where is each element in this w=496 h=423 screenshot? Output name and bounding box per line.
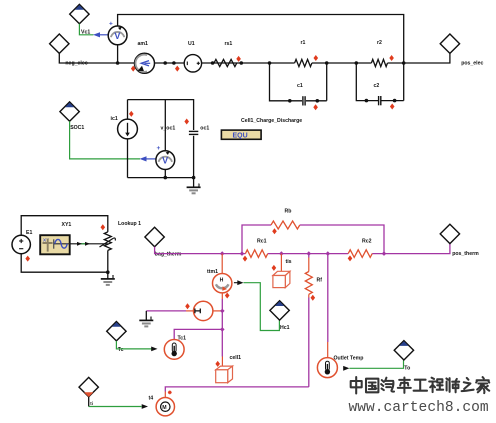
ground (187, 178, 201, 194)
wire (343, 360, 403, 370)
svg-text:U1: U1 (188, 41, 195, 47)
wire (312, 54, 450, 64)
pin marker (313, 104, 318, 110)
heat source ttm1 (207, 269, 232, 293)
wire (140, 156, 157, 161)
connector bag_therm (145, 227, 182, 257)
junction (163, 61, 175, 65)
svg-text:Outlet Temp: Outlet Temp (334, 355, 364, 361)
svg-text:pos_elec: pos_elec (461, 60, 483, 66)
sensor t4 (149, 395, 175, 416)
thermometer Tc1 (164, 336, 186, 360)
wire (70, 242, 108, 246)
resistor Rf (305, 254, 322, 298)
svg-text:r2: r2 (377, 40, 382, 46)
svg-text:oc1: oc1 (200, 125, 209, 131)
ground (101, 272, 115, 285)
wire (93, 32, 108, 37)
wire (70, 121, 140, 159)
svg-text:Tc: Tc (118, 347, 124, 353)
capacitor c2 (356, 63, 403, 105)
wire (174, 329, 222, 339)
voltmeter v_oc1 (156, 125, 175, 169)
watermark 中国汽车工程师之家 (351, 377, 490, 394)
heat cube cell1 (216, 355, 241, 383)
wire (327, 254, 329, 358)
connector Tc (107, 322, 126, 353)
wire (221, 293, 223, 367)
capacitor c1 (270, 63, 327, 106)
svg-text:To: To (404, 366, 410, 372)
resistor r2 (371, 40, 387, 67)
wire (79, 24, 93, 35)
wire SOC block (128, 100, 194, 178)
connector SOC1 (60, 102, 85, 131)
wire (280, 254, 282, 272)
svg-text:rs1: rs1 (225, 41, 233, 47)
pin marker (175, 66, 180, 72)
connector neg_elec (50, 34, 88, 66)
svg-text:Rc2: Rc2 (362, 238, 372, 244)
svg-text:+: + (157, 145, 161, 152)
svg-text:M: M (162, 405, 166, 411)
thermometer Outlet Temp (317, 355, 363, 377)
junction (220, 309, 225, 332)
svg-text:bag_therm: bag_therm (155, 251, 182, 257)
svg-text:XY1: XY1 (62, 222, 72, 228)
junction (220, 251, 386, 256)
connector pos_therm (440, 224, 479, 257)
pin marker (236, 56, 241, 62)
svg-text:v_oc1: v_oc1 (161, 125, 176, 131)
svg-text:Tc1: Tc1 (178, 336, 187, 342)
EQU block (221, 130, 261, 140)
connector Vc1 (70, 4, 91, 35)
pin marker (243, 256, 248, 262)
wire (221, 254, 223, 274)
svg-text:www.cartech8.com: www.cartech8.com (349, 400, 489, 416)
wire (244, 283, 280, 331)
resistor Rc2 (348, 238, 372, 257)
junction (268, 61, 329, 65)
voltmeter V1 (108, 21, 127, 45)
pin marker (272, 228, 277, 234)
svg-text:c1: c1 (297, 83, 303, 89)
wire (59, 53, 294, 63)
wire (116, 341, 157, 351)
pin marker (215, 361, 220, 367)
connector Hc1 (270, 301, 290, 332)
potentiometer Lookup 1 (100, 221, 142, 251)
svg-text:+: + (109, 21, 113, 28)
svg-text:ttm1: ttm1 (207, 269, 218, 275)
wire (146, 310, 222, 312)
svg-text:Lookup 1: Lookup 1 (118, 221, 141, 227)
svg-text:Hc1: Hc1 (280, 325, 290, 331)
resistor Rb (271, 209, 300, 230)
pin marker (185, 303, 190, 309)
pin marker (311, 295, 316, 301)
svg-text:Rc1: Rc1 (257, 238, 267, 244)
pin marker (314, 55, 319, 61)
pin marker (168, 391, 172, 395)
svg-text:am1: am1 (138, 41, 148, 47)
wire XY block (21, 216, 108, 273)
svg-text:tis: tis (286, 259, 292, 265)
junction (365, 99, 397, 103)
junction (288, 99, 319, 103)
junction (355, 61, 406, 65)
svg-text:E1: E1 (26, 230, 32, 236)
pin marker (129, 111, 134, 117)
wire (165, 387, 308, 398)
source U1 (184, 41, 201, 72)
wire (118, 15, 404, 64)
svg-text:Cell1_Charge_Discharge: Cell1_Charge_Discharge (241, 118, 302, 124)
pin marker (101, 224, 106, 230)
source E1 (12, 230, 32, 254)
svg-text:r1: r1 (301, 40, 306, 46)
svg-text:Rf: Rf (317, 278, 323, 284)
junction (211, 61, 243, 65)
resistor r1 (295, 40, 312, 67)
scope XY display (40, 235, 69, 254)
wire thermal main (155, 244, 450, 254)
pin marker (225, 293, 230, 299)
pin marker (348, 255, 353, 261)
pin marker (390, 104, 395, 110)
svg-text:ic1: ic1 (111, 116, 118, 122)
resistor rs1 (214, 41, 237, 67)
svg-text:EQU: EQU (233, 133, 248, 140)
pin marker (389, 55, 394, 61)
svg-text:ti: ti (90, 401, 93, 406)
svg-text:Rb: Rb (285, 209, 292, 215)
connector pos_elec (440, 34, 483, 66)
resistor Rc1 (245, 238, 267, 257)
converter tc (194, 301, 213, 320)
wire (234, 280, 244, 285)
junction (106, 270, 110, 274)
capacitor oc1 (189, 125, 209, 134)
svg-text:pos_therm: pos_therm (452, 251, 479, 257)
junction (116, 61, 120, 65)
junction (164, 176, 196, 180)
svg-text:cell1: cell1 (230, 355, 242, 361)
connector To (394, 341, 413, 372)
svg-text:t4: t4 (149, 395, 154, 401)
pin marker (25, 256, 30, 262)
svg-text:SOC1: SOC1 (70, 125, 84, 131)
source ic1 (111, 116, 138, 139)
pin marker (272, 265, 277, 271)
wire Rb loop (242, 225, 384, 254)
heat cube tis (273, 259, 292, 288)
pin marker (184, 119, 189, 125)
pin marker (131, 66, 136, 72)
ammeter am1 (135, 41, 155, 73)
svg-text:H: H (220, 278, 224, 284)
svg-text:c2: c2 (374, 83, 380, 89)
wire (89, 397, 148, 409)
wire (117, 35, 119, 63)
ground (139, 311, 153, 327)
connector ti (79, 377, 98, 405)
wire (308, 298, 310, 387)
